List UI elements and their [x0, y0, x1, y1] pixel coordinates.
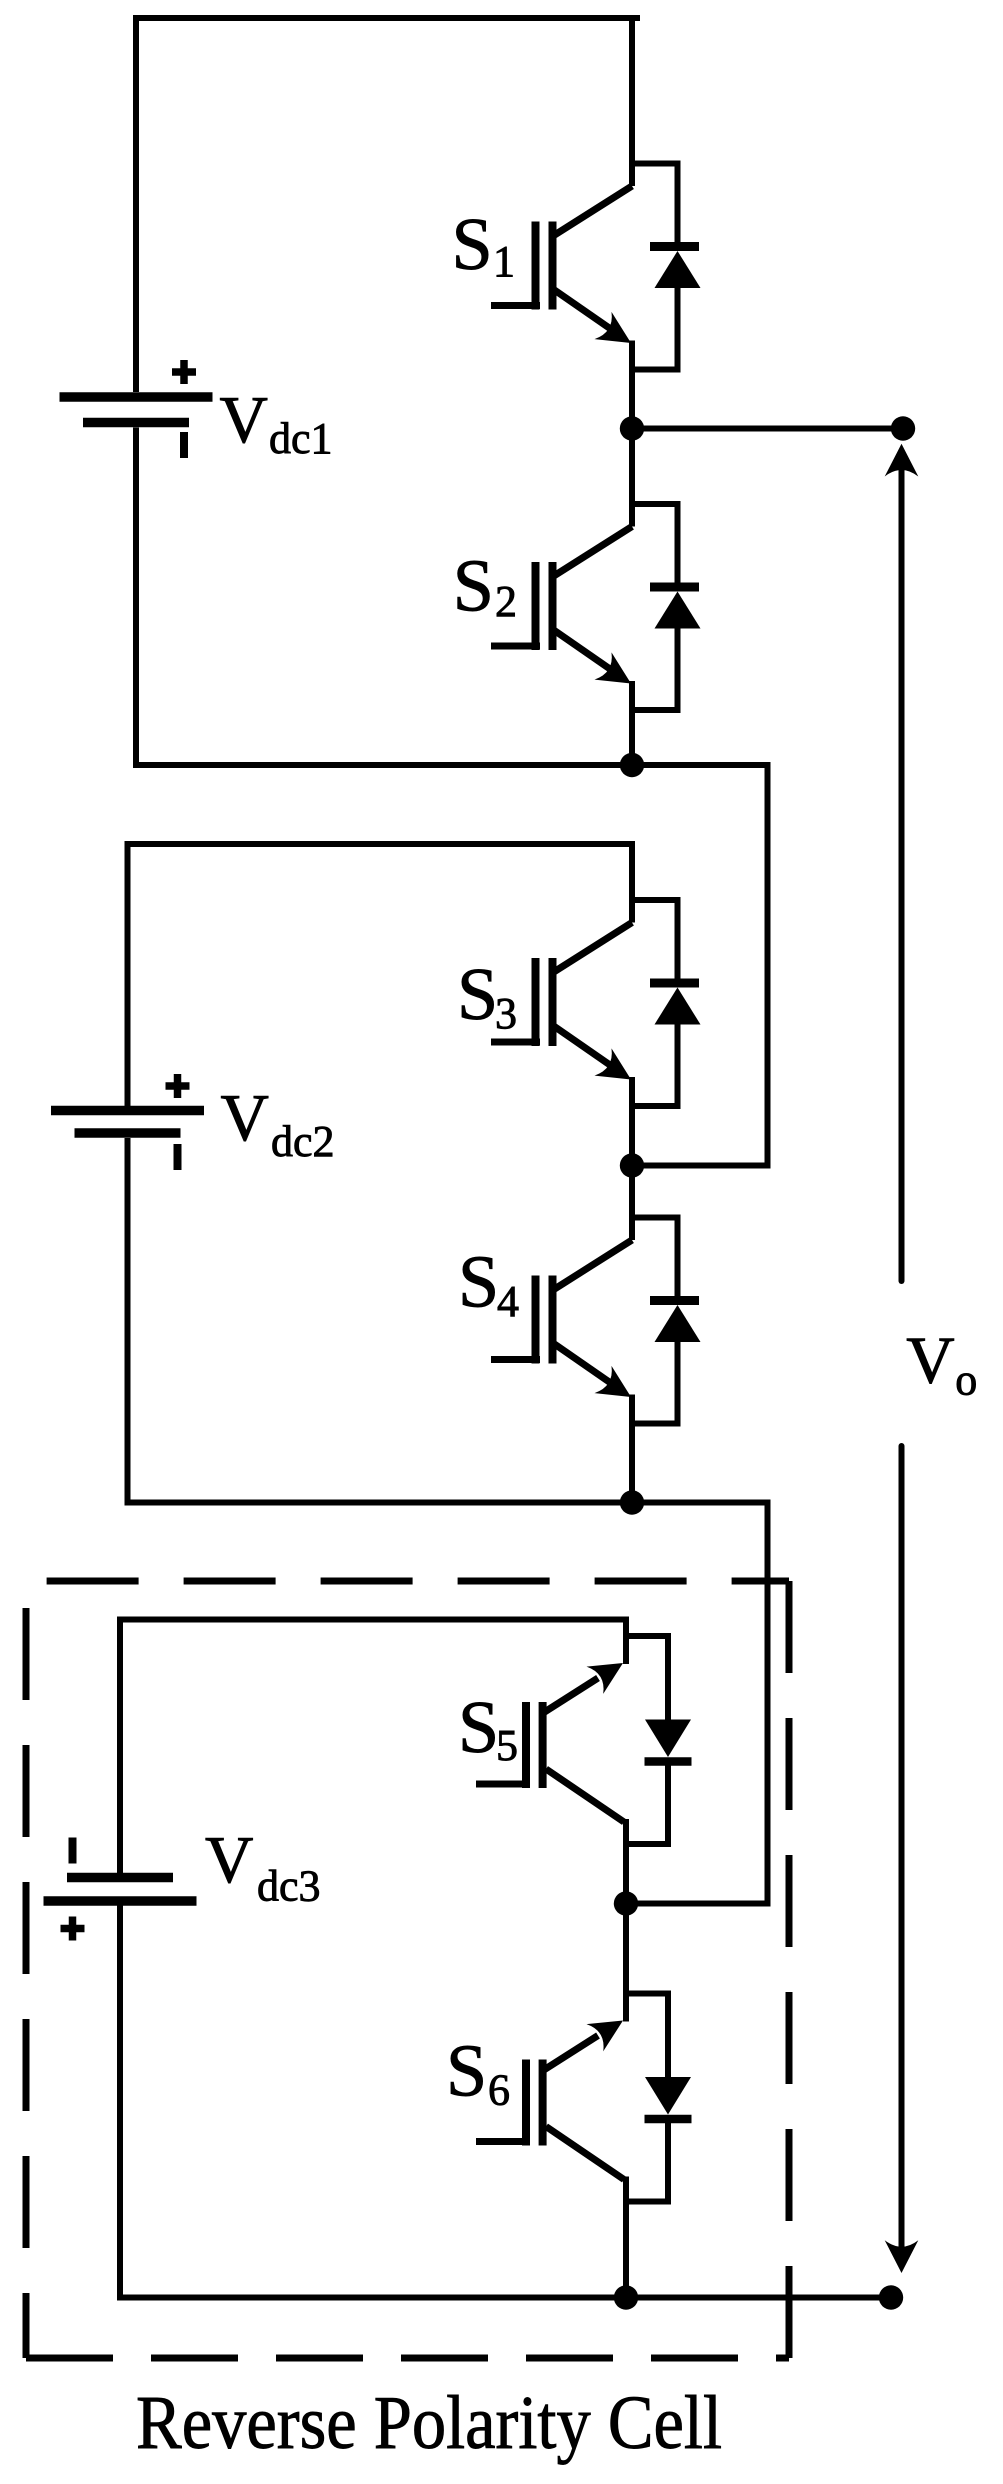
svg-text:Reverse Polarity Cell: Reverse Polarity Cell [136, 2381, 722, 2465]
transistor S3 emitter diagonal [553, 1026, 610, 1066]
diode D5 cathode bar [645, 1757, 692, 1766]
svg-text:S: S [457, 954, 498, 1036]
transistor S6 collector diagonal [546, 2127, 624, 2180]
transistor S1 gate bar right [549, 222, 557, 310]
transistor S4 gate bar right [549, 1276, 557, 1364]
diode D4 anode wire [675, 1342, 681, 1427]
transistor S6 collector lead [623, 2177, 629, 2298]
diode D4 cathode wire [675, 1215, 681, 1301]
wire cell2 top [125, 841, 636, 847]
transistor S5 collector diagonal [546, 1769, 624, 1822]
transistor S1 collector diagonal [553, 186, 632, 236]
transistor S2 gate bar right [549, 562, 557, 650]
transistor S4 collector diagonal [553, 1240, 632, 1290]
transistor S2 with diode [491, 429, 701, 766]
battery V_dc2 positive plate [51, 1106, 204, 1116]
svg-text:3: 3 [495, 989, 517, 1038]
transistor S5 emitter arrow [587, 1663, 624, 1694]
transistor S1 emitter diagonal [553, 289, 610, 329]
wire cell3 mid horizontal [626, 1901, 771, 1907]
transistor S1 gate lead [491, 302, 540, 309]
node B output top [891, 416, 915, 440]
wire cell2 left upper [125, 841, 131, 1106]
transistor S6 gate bar left [522, 2060, 530, 2146]
diode D4 bottom branch wire [629, 1421, 678, 1427]
wire cell2 mid horizontal [632, 1163, 771, 1169]
transistor S4 collector lead [629, 1166, 635, 1241]
transistor S4 gate lead [491, 1356, 540, 1363]
wire cell1-to-cell2 vertical [765, 762, 771, 1166]
transistor S5 top lead [623, 1620, 629, 1665]
diode D1 bottom branch wire [629, 367, 678, 373]
transistor S2 emitter arrow [595, 652, 632, 683]
wire cell2-to-cell3 horizontal [632, 1500, 768, 1506]
svg-text:1: 1 [493, 237, 515, 286]
svg-text:S: S [452, 204, 493, 286]
transistor S3 collector lead [629, 844, 635, 923]
diode D3 anode wire [675, 1025, 681, 1110]
diode D1 anode wire [675, 288, 681, 373]
svg-text:V: V [906, 1324, 954, 1398]
wire cell3 left upper [117, 1617, 123, 1874]
svg-text:4: 4 [497, 1277, 519, 1326]
node D junction [620, 1153, 644, 1177]
transistor S1 emitter lead [629, 341, 635, 429]
wire output top [632, 426, 903, 432]
diode D5 cathode wire [665, 1762, 671, 1848]
svg-text:V: V [205, 1823, 253, 1897]
battery V_dc2 plus sign [166, 1082, 190, 1090]
svg-text:S: S [458, 1242, 499, 1324]
wire cell1 bottom [133, 762, 632, 768]
diode D2 anode wire [675, 629, 681, 714]
diode D6 triangle [645, 2077, 691, 2115]
diode D2 top branch wire [629, 501, 678, 507]
transistor S4 gate bar left [532, 1276, 540, 1364]
battery V_dc3 minus sign [69, 1838, 77, 1864]
transistor S3 collector diagonal [553, 923, 632, 973]
node E cell2 bottom [620, 1490, 644, 1514]
svg-text:5: 5 [496, 1721, 518, 1770]
node H output bottom [879, 2285, 903, 2309]
transistor S1 emitter arrow [595, 312, 632, 343]
wire cell3 top [117, 1617, 629, 1623]
battery V_dc3 plus sign [61, 1925, 85, 1933]
battery V_dc2 minus sign [174, 1144, 182, 1170]
wire cell1 top [133, 15, 640, 21]
diode D6 top branch wire [623, 1991, 668, 1997]
transistor S6 top lead [623, 1904, 629, 2022]
transistor S6 gate bar right [539, 2060, 547, 2146]
transistor S6 emitter arrow [587, 2021, 624, 2052]
battery V_dc2 [51, 1074, 204, 1170]
battery V_dc3 negative plate [67, 1873, 173, 1883]
wire cell2-to-cell3 vertical [765, 1500, 771, 1904]
diode D4 cathode bar [650, 1296, 699, 1305]
transistor S1 collector lead [629, 18, 635, 186]
transistor S3 gate lead [491, 1039, 540, 1046]
node A junction [620, 416, 644, 440]
diode D3 cathode wire [675, 897, 681, 983]
transistor S4 emitter lead [629, 1395, 635, 1503]
wire cell3 left lower [117, 1906, 123, 2301]
battery V_dc1 minus sign [180, 432, 188, 458]
diode D1 cathode wire [675, 161, 681, 247]
dashed box top [26, 1578, 789, 1585]
transistor S3 emitter arrow [595, 1048, 632, 1079]
transistor S2 emitter lead [629, 681, 635, 765]
wire cell3 bottom [117, 2295, 626, 2301]
svg-text:dc2: dc2 [271, 1117, 335, 1166]
transistor S5 gate bar right [539, 1702, 547, 1788]
transistor S2 gate bar left [532, 562, 540, 650]
battery V_dc1 [60, 360, 213, 458]
node G cell3 bottom [614, 2285, 638, 2309]
svg-text:6: 6 [488, 2066, 510, 2115]
transistor S2 gate lead [491, 643, 540, 650]
battery V_dc1 plus sign [172, 368, 196, 376]
wire cell1 left upper [133, 15, 139, 392]
Vo line lower [899, 1446, 905, 2252]
diode D5 bottom branch wire [623, 1841, 668, 1847]
svg-text:o: o [955, 1356, 977, 1405]
transistor S5 gate lead [476, 1781, 530, 1788]
wire cell1 left lower [133, 428, 139, 769]
svg-text:dc1: dc1 [269, 414, 333, 463]
transistor S4 emitter arrow [595, 1366, 632, 1397]
diode D1 top branch wire [629, 161, 678, 167]
node F junction [614, 1891, 638, 1915]
svg-text:dc3: dc3 [257, 1862, 321, 1911]
wire cell2 left lower [125, 1138, 131, 1506]
transistor S5 emitter diagonal [543, 1678, 598, 1713]
transistor S5 collector lead [623, 1819, 629, 1904]
transistor S2 collector diagonal [553, 527, 632, 577]
transistor S5 with diode [476, 1620, 692, 1904]
transistor S4 with diode [491, 1166, 701, 1503]
svg-text:V: V [220, 383, 268, 457]
Vo arrow head up [885, 444, 919, 477]
transistor S1 with diode [491, 18, 701, 429]
battery V_dc2 negative plate [75, 1128, 181, 1138]
wire output bottom [626, 2295, 891, 2301]
diode D3 top branch wire [629, 897, 678, 903]
svg-text:S: S [458, 1687, 499, 1769]
battery V_dc3 [44, 1838, 197, 1941]
transistor S3 gate bar left [532, 958, 540, 1046]
diode D5 triangle [645, 1720, 691, 1758]
diode D6 anode wire [665, 1991, 671, 2078]
node C cell1 bottom [620, 753, 644, 777]
transistor S3 gate bar right [549, 958, 557, 1046]
transistor S6 with diode [476, 1904, 692, 2298]
diode D6 cathode wire [665, 2119, 671, 2205]
transistor S2 collector lead [629, 429, 635, 527]
Vo arrow head down [885, 2240, 919, 2273]
svg-text:S: S [453, 546, 494, 628]
diode D3 cathode bar [650, 979, 699, 988]
transistor S5 gate bar left [522, 1702, 530, 1788]
battery V_dc1 negative plate [83, 418, 189, 428]
transistor S4 emitter diagonal [553, 1343, 610, 1383]
diode D2 cathode wire [675, 501, 681, 587]
battery V_dc3 positive plate [44, 1896, 197, 1906]
dashed box bottom [26, 2355, 789, 2362]
battery V_dc1 positive plate [60, 392, 213, 402]
diode D3 bottom branch wire [629, 1103, 678, 1109]
diode D6 cathode bar [645, 2115, 692, 2124]
wire cell1-to-cell2 horizontal [632, 762, 768, 768]
wire cell2 bottom [125, 1500, 633, 1506]
diode D6 bottom branch wire [623, 2199, 668, 2205]
svg-text:2: 2 [495, 577, 517, 626]
Vo line upper [899, 452, 905, 1281]
diode D2 cathode bar [650, 583, 699, 592]
transistor S3 with diode [491, 844, 701, 1166]
dashed box right [786, 1581, 793, 2358]
diode D3 triangle [655, 988, 701, 1025]
transistor S2 emitter diagonal [553, 630, 610, 670]
transistor S6 emitter diagonal [543, 2036, 598, 2071]
transistor S6 gate lead [476, 2138, 530, 2145]
diode D2 triangle [655, 592, 701, 629]
transistor S1 gate bar left [532, 222, 540, 310]
diode D5 top branch wire [623, 1633, 668, 1639]
dashed box left [23, 1581, 30, 2358]
diode D2 bottom branch wire [629, 707, 678, 713]
diode D5 anode wire [665, 1633, 671, 1720]
diode D1 cathode bar [650, 242, 699, 251]
svg-text:S: S [446, 2031, 487, 2113]
diode D4 top branch wire [629, 1215, 678, 1221]
transistor S3 emitter lead [629, 1077, 635, 1166]
svg-text:V: V [221, 1081, 269, 1155]
diode D4 triangle [655, 1305, 701, 1342]
diode D1 triangle [655, 251, 701, 288]
